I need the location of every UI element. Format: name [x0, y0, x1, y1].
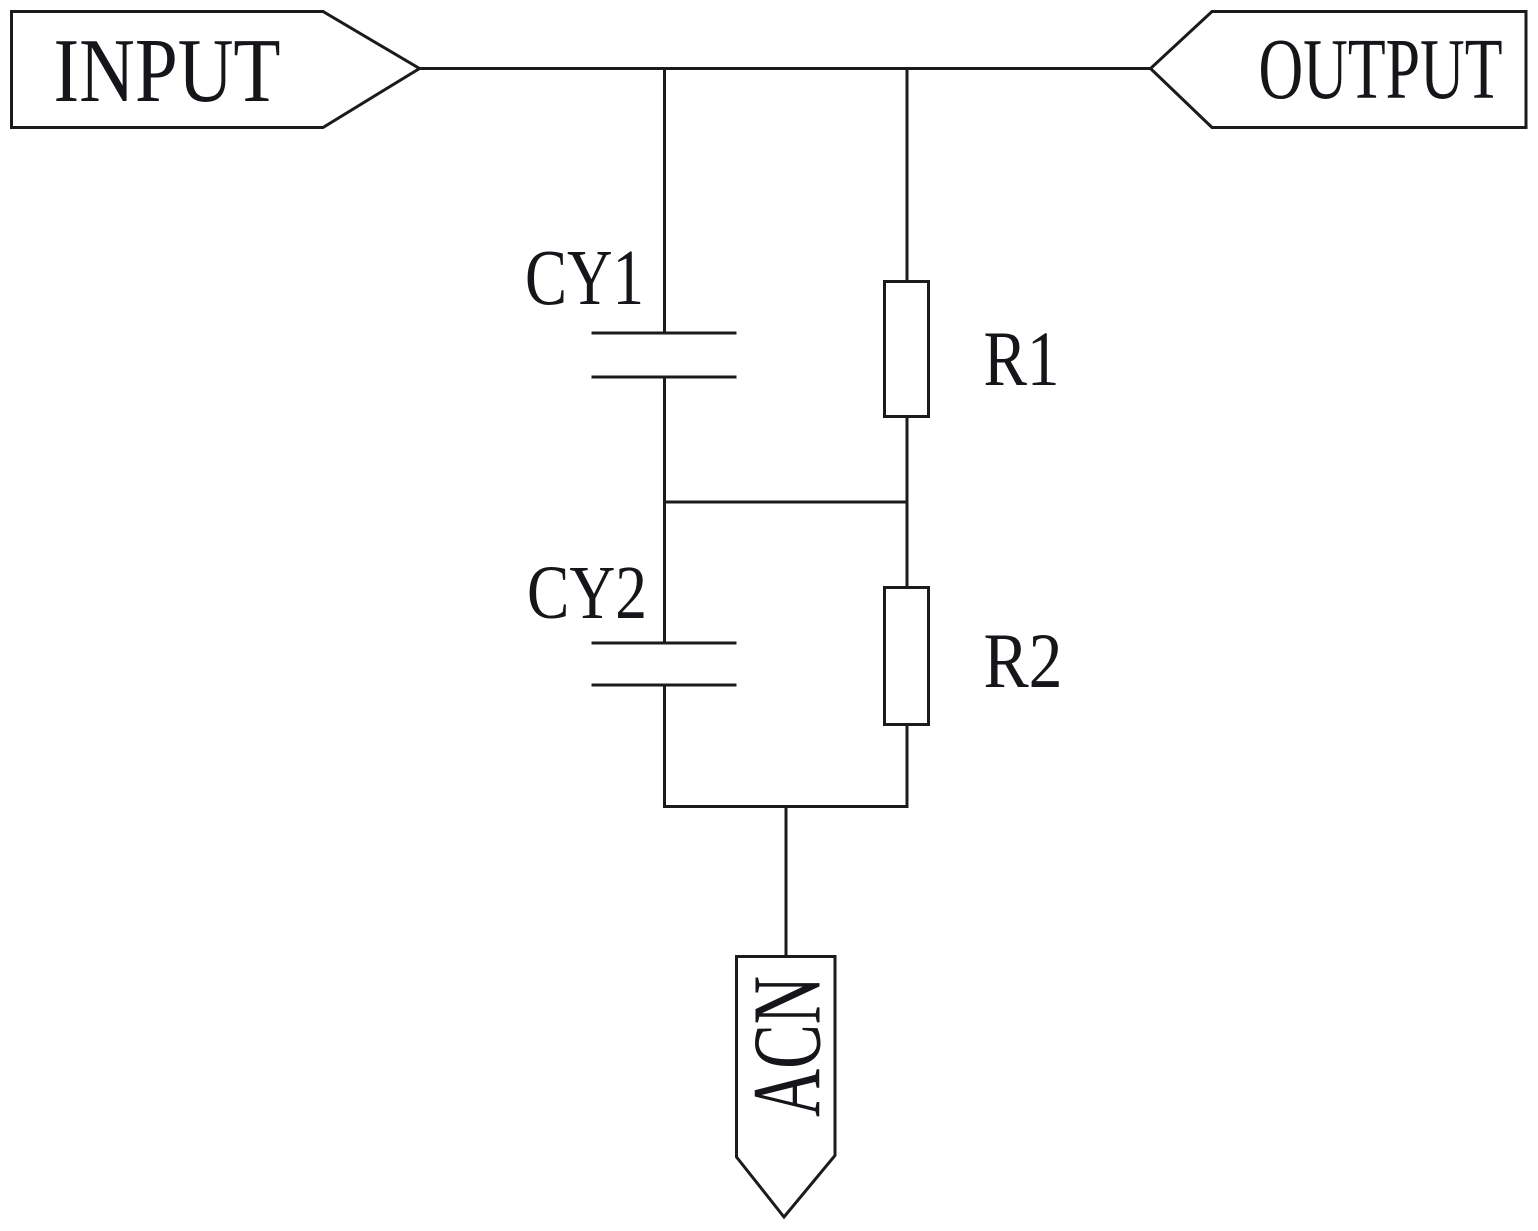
svg-text:R2: R2 [984, 617, 1063, 704]
svg-text:CY2: CY2 [527, 550, 647, 635]
wire vertical R2 to bottom rail [906, 725, 909, 809]
resistor R1 [885, 282, 929, 417]
capacitor CY2 [592, 643, 737, 685]
wire vertical center drop to ACN [785, 807, 788, 957]
wire middle horizontal junction [665, 501, 908, 504]
wire vertical CY2 to bottom rail [663, 685, 666, 808]
wire vertical R1 to R2 [906, 417, 909, 589]
node ACN connector [737, 957, 836, 1218]
svg-text:ACN: ACN [734, 976, 842, 1117]
node INPUT connector [12, 12, 420, 128]
wire vertical CY1 to CY2 [663, 377, 666, 643]
wire bottom horizontal rail [663, 805, 909, 808]
svg-text:CY1: CY1 [525, 234, 644, 322]
resistor R2 [885, 588, 929, 725]
wire vertical from top wire to R1 [906, 69, 909, 283]
wire vertical from top wire to CY1 [663, 69, 666, 334]
capacitor CY1 [592, 333, 737, 377]
svg-text:INPUT: INPUT [54, 19, 281, 121]
svg-text:OUTPUT: OUTPUT [1259, 20, 1503, 117]
wire top horizontal INPUT to OUTPUT [418, 67, 1152, 70]
node OUTPUT connector [1151, 12, 1527, 128]
svg-text:R1: R1 [984, 315, 1060, 402]
